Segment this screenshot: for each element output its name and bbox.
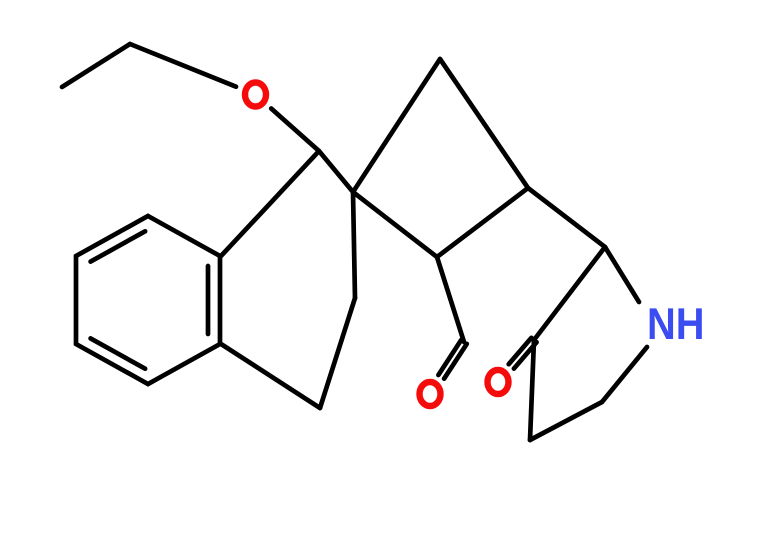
svg-text:NH: NH [647, 300, 705, 349]
